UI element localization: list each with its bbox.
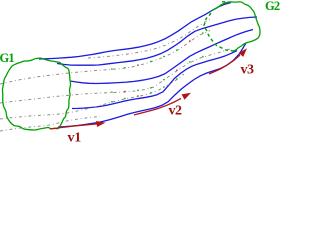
wire blue leaf B1: [39, 3, 231, 60]
colored specks on dash-dot leaves: [111, 68, 112, 69]
vector arrow v3: [209, 55, 240, 74]
svg-text:G2: G2: [265, 0, 280, 13]
wire blue leaf B5: [58, 43, 246, 127]
wire blue leaf B4: [72, 51, 237, 109]
wire grey leaf g2: [0, 31, 210, 85]
svg-text:v3: v3: [241, 63, 255, 78]
wire blue leaf B2: [57, 17, 257, 65]
vector arrow v2: [134, 99, 181, 116]
G2 dashed top continuation: [222, 1, 228, 3]
wire blue leaf B3: [70, 30, 253, 84]
node G2 blob solid boundary: [212, 2, 260, 51]
svg-text:G1: G1: [0, 51, 14, 65]
wire grey leaf g1: [88, 18, 212, 58]
wire grey leaf g5: [0, 117, 100, 132]
node G1 blob: [2, 58, 70, 130]
vector arrow v1: [50, 124, 97, 129]
wire grey leaf g4: [0, 74, 184, 119]
wire grey leaf g3: [0, 49, 231, 104]
node G2 blob dashed boundary: [204, 11, 234, 52]
svg-text:v1: v1: [68, 131, 82, 146]
svg-text:v2: v2: [169, 104, 183, 119]
